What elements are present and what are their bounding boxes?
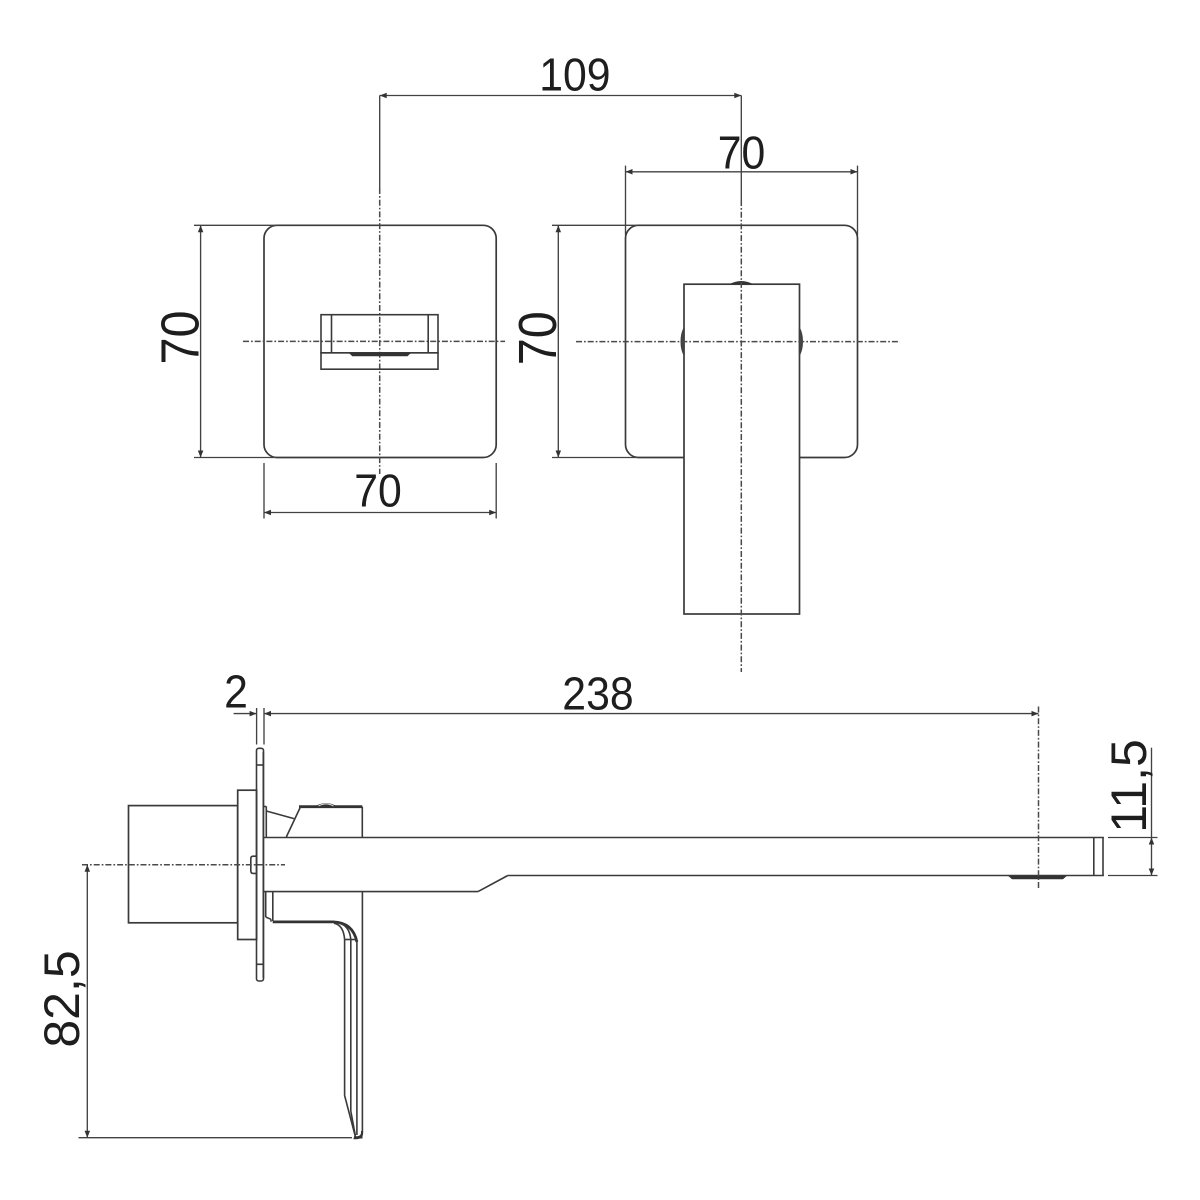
svg-text:70: 70 (149, 310, 210, 364)
svg-text:238: 238 (562, 669, 633, 720)
svg-text:2: 2 (224, 667, 248, 718)
svg-text:11,5: 11,5 (1101, 739, 1157, 833)
svg-text:70: 70 (718, 128, 766, 179)
svg-text:70: 70 (507, 311, 568, 365)
svg-text:82,5: 82,5 (34, 950, 90, 1047)
svg-text:109: 109 (539, 50, 610, 101)
svg-text:70: 70 (354, 466, 402, 517)
